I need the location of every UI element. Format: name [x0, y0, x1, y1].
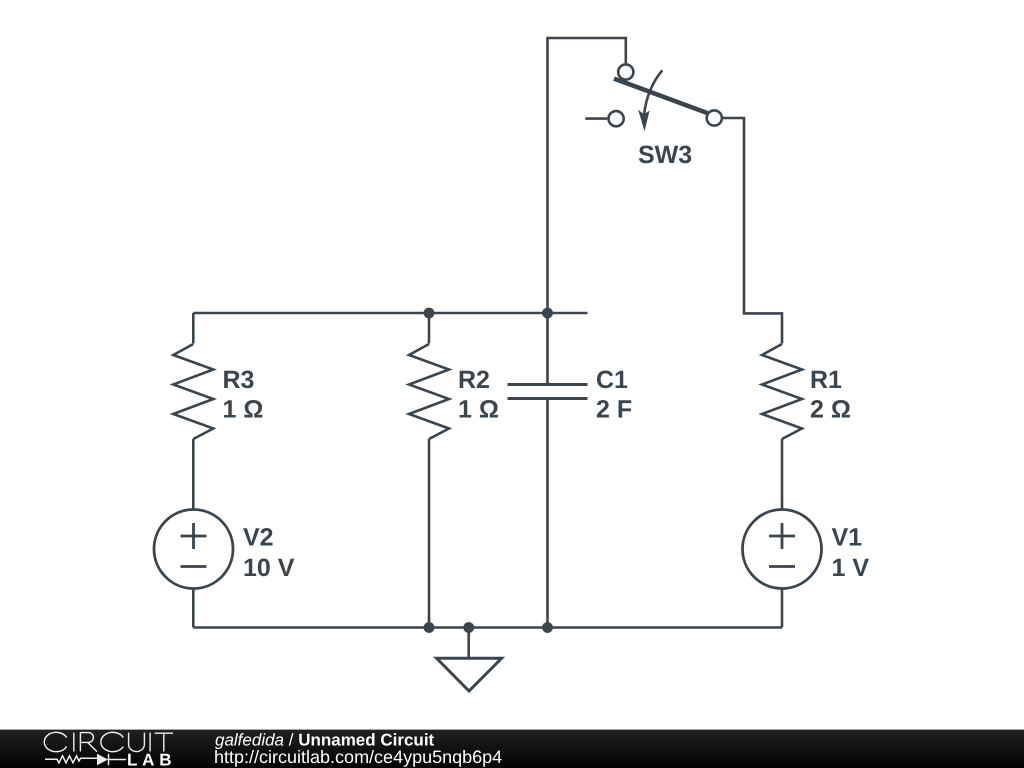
wire C1 bottom: [546, 399, 549, 628]
wire top rail: [193, 312, 587, 315]
resistor R1: [762, 344, 802, 439]
node junction bottom ground: [463, 622, 474, 633]
node junction top R2: [424, 308, 435, 319]
wire switch stub open: [585, 117, 607, 120]
switch terminal open: [609, 111, 624, 126]
svg-text:2 F: 2 F: [596, 396, 632, 424]
switch terminal common: [707, 110, 722, 125]
source V2: [154, 510, 233, 589]
resistor R2: [409, 344, 449, 439]
svg-text:R3: R3: [223, 366, 255, 394]
switch lever: [614, 79, 708, 114]
wire R2 branch top: [428, 313, 431, 344]
resistor R3: [173, 344, 213, 439]
wire switch common to R1: [722, 118, 782, 344]
svg-text:1 Ω: 1 Ω: [223, 396, 264, 424]
wire R1 to V1: [781, 439, 784, 510]
switch terminal top: [618, 64, 633, 79]
wire R2 bottom: [428, 439, 431, 628]
svg-text:1 V: 1 V: [832, 554, 870, 582]
logo CIRCUIT LAB: [44, 732, 173, 751]
svg-text:R2: R2: [458, 366, 490, 394]
wire V1 bottom: [781, 589, 784, 628]
wire top loop to switch: [548, 38, 626, 313]
wire C1 top: [546, 313, 549, 385]
svg-text:10 V: 10 V: [243, 554, 295, 582]
capacitor C1: [508, 385, 588, 399]
ground: [437, 628, 502, 692]
svg-text:http://circuitlab.com/ce4ypu5n: http://circuitlab.com/ce4ypu5nqb6p4: [214, 747, 502, 767]
wire V2 bottom: [192, 589, 195, 628]
switch SW3: [585, 64, 782, 343]
node junction bottom R2: [424, 622, 435, 633]
wire bottom rail: [193, 626, 782, 629]
footer bar: [0, 729, 1024, 730]
source V1: [743, 510, 822, 589]
svg-text:C1: C1: [596, 366, 628, 394]
logo resistor-diode: [45, 756, 97, 763]
svg-text:2 Ω: 2 Ω: [810, 396, 851, 424]
node junction top C1: [542, 308, 553, 319]
svg-text:R1: R1: [810, 366, 842, 394]
svg-text:1 Ω: 1 Ω: [458, 396, 499, 424]
wire R3 to V2: [192, 439, 195, 510]
svg-text:V2: V2: [243, 524, 274, 552]
svg-text:SW3: SW3: [638, 141, 692, 169]
svg-text:LAB: LAB: [127, 751, 176, 768]
wire R3 branch top: [192, 313, 195, 344]
switch arrow: [644, 70, 662, 115]
node junction bottom C1: [542, 622, 553, 633]
svg-text:V1: V1: [832, 524, 863, 552]
